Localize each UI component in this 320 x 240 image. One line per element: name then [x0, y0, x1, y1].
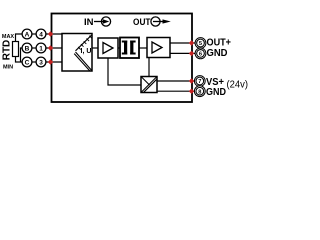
svg-text:7: 7 [198, 79, 201, 85]
wire A2 to terminal 6 [170, 52, 196, 54]
terminal 8 [194, 86, 205, 97]
svg-text:6: 6 [199, 52, 202, 58]
terminal 1 [36, 43, 46, 53]
svg-text:8: 8 [198, 89, 201, 95]
svg-text:C: C [25, 59, 30, 66]
wire A1 power to DC/DC [108, 58, 141, 85]
svg-text:1: 1 [39, 45, 43, 52]
IN circle [101, 17, 110, 26]
terminal B [22, 43, 32, 53]
node red dot terminal 4 [48, 31, 53, 36]
wire 1 to input block [46, 47, 63, 49]
svg-text:A: A [25, 31, 30, 38]
node red dot terminal 5 [189, 40, 194, 45]
svg-text:OUT+: OUT+ [207, 38, 232, 49]
wire RTD bottom to terminal C [16, 56, 23, 62]
amplifier A1 [98, 38, 118, 58]
svg-text:3: 3 [39, 59, 43, 66]
terminal A [22, 29, 32, 39]
amplifier A2 [147, 38, 170, 58]
terminal 4 [36, 29, 46, 39]
svg-text:MAX: MAX [2, 34, 15, 40]
OUT circle [151, 17, 160, 26]
node red dot terminal 6 [189, 51, 194, 56]
svg-text:MIN: MIN [3, 65, 13, 71]
terminal 3 [36, 57, 46, 67]
wire A to 4 [32, 33, 37, 35]
DC/DC converter [141, 77, 157, 93]
svg-text:GND: GND [206, 87, 226, 98]
wire transformer to amplifier A2 [139, 47, 147, 49]
wire DC/DC to terminal 7 [157, 80, 195, 82]
svg-text:5: 5 [199, 41, 202, 47]
svg-text:I, U: I, U [81, 48, 92, 55]
node red dot terminal 8 [189, 89, 194, 94]
OUT arrow [153, 19, 171, 23]
wire 4 to input block [46, 33, 63, 35]
terminal C [22, 57, 32, 67]
node red dot terminal 3 [48, 59, 53, 64]
wire A1 to transformer [118, 47, 120, 49]
isolation transformer T1 [120, 38, 139, 59]
wire input block to amplifier A1 [92, 47, 98, 49]
input converter block [62, 34, 92, 72]
wire RTD top to terminal A [16, 34, 23, 42]
node red dot terminal 7 [189, 78, 194, 83]
svg-text:RTD: RTD [2, 40, 13, 61]
wire B to 1 [32, 47, 37, 49]
RTD element R1 [13, 42, 19, 57]
svg-text:IN: IN [84, 17, 94, 28]
terminal 5 [195, 38, 206, 49]
wire C to 3 [32, 61, 37, 63]
terminal 6 [195, 48, 206, 59]
svg-text:B: B [25, 45, 30, 52]
svg-text:4: 4 [39, 31, 43, 38]
node red dot terminal 1 [48, 45, 53, 50]
wire DC/DC to terminal 8 [157, 90, 195, 92]
wire A2 power to DC/DC [148, 58, 150, 77]
svg-text:GND: GND [207, 48, 228, 59]
enclosure box [52, 14, 193, 103]
wire terminal B to bottom junction [21, 48, 23, 62]
wire A2 to terminal 5 [170, 42, 196, 44]
svg-text:OUT: OUT [133, 17, 151, 28]
wire 3 to input block [46, 61, 63, 63]
IN arrow [94, 19, 109, 24]
terminal 7 [194, 76, 205, 87]
svg-text:(24v): (24v) [227, 80, 249, 91]
